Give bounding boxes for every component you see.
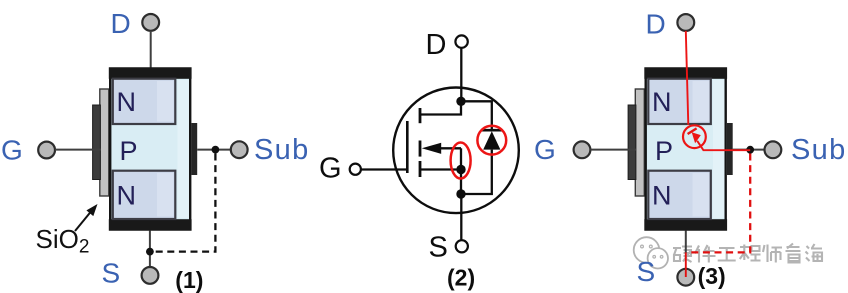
char 海 bbox=[806, 244, 824, 261]
svg-text:(3): (3) bbox=[698, 263, 726, 289]
wire G (part1) bbox=[55, 149, 101, 151]
wire S (part2) bbox=[460, 194, 462, 240]
wire D (part2) bbox=[460, 48, 462, 102]
red highlight ellipse around body-source short (part2) bbox=[451, 143, 471, 179]
gate bar (part2) bbox=[406, 121, 409, 173]
node Sub junction (part3) bbox=[746, 146, 754, 154]
red dashed wire Sub to S (part3) bbox=[687, 154, 750, 253]
svg-text:N: N bbox=[652, 180, 672, 210]
gate electrode bar (part3) bbox=[628, 105, 636, 180]
N+ drain box light strip (part1) bbox=[157, 81, 174, 122]
terminal S (part2) bbox=[456, 240, 468, 252]
char 件 bbox=[695, 245, 716, 263]
arrow SiO2 pointer (part1) bbox=[75, 212, 91, 232]
channel segment drain (part2) bbox=[419, 108, 422, 123]
gate electrode bar (part1) bbox=[93, 105, 101, 180]
terminal D (part2) bbox=[455, 35, 467, 47]
svg-text:G: G bbox=[1, 135, 23, 166]
body right light strip (part1) bbox=[178, 80, 190, 218]
svg-text:Sub: Sub bbox=[254, 134, 310, 166]
svg-text:N: N bbox=[117, 180, 137, 210]
source metal bar bottom (part1) bbox=[109, 219, 192, 231]
red body diode arrow (part3) bbox=[692, 132, 701, 143]
drain metal bar top (part3) bbox=[644, 67, 727, 79]
char 硬 bbox=[673, 247, 692, 263]
svg-text:D: D bbox=[111, 8, 131, 39]
channel segment source (part2) bbox=[419, 161, 422, 177]
terminal Sub (part1) bbox=[231, 141, 248, 158]
svg-text:S: S bbox=[637, 256, 656, 287]
dashed wire Sub to S (part1) bbox=[154, 154, 216, 252]
watermark logo bubble big bbox=[634, 237, 660, 263]
wire Sub (part1) bbox=[197, 149, 231, 151]
red wire S lower (part3) bbox=[685, 252, 687, 277]
wire D (part1) bbox=[150, 31, 152, 68]
N+ source box light strip (part1) bbox=[157, 173, 174, 217]
char 工 bbox=[718, 248, 736, 261]
svg-text:D: D bbox=[646, 9, 666, 40]
red body diode circle (part3) bbox=[683, 125, 706, 148]
svg-text:S: S bbox=[429, 232, 448, 264]
svg-text:(2): (2) bbox=[447, 265, 475, 291]
substrate contact tab (part3) bbox=[727, 123, 733, 175]
wire source to channel (part2) bbox=[419, 168, 461, 170]
N+ source box (part3) bbox=[648, 171, 711, 219]
N+ source box light strip (part3) bbox=[693, 173, 710, 217]
terminal Sub (part3) bbox=[765, 141, 782, 158]
svg-text:Sub: Sub bbox=[791, 134, 847, 166]
node Sub junction (part1) bbox=[212, 146, 220, 154]
node body-source junction dot (part2) bbox=[456, 165, 465, 174]
wire S (part1) bbox=[149, 231, 151, 268]
svg-text:N: N bbox=[117, 87, 137, 117]
wire diode branch (part2) bbox=[461, 101, 492, 130]
body diode D1 triangle (part2) bbox=[483, 131, 500, 149]
terminal G (part2) bbox=[350, 164, 361, 175]
red wire D to body diode (part3) bbox=[686, 31, 689, 125]
svg-text:N: N bbox=[652, 87, 672, 117]
channel segment body (part2) bbox=[419, 141, 422, 157]
svg-text:G: G bbox=[319, 153, 342, 185]
svg-text:P: P bbox=[655, 136, 673, 166]
N+ drain box (part1) bbox=[113, 79, 176, 124]
body arrow (part2) bbox=[422, 143, 441, 154]
terminal S (part1) bbox=[142, 267, 159, 284]
char 师 bbox=[763, 245, 782, 263]
body region P (part1) bbox=[110, 69, 190, 230]
char 看 bbox=[786, 244, 801, 263]
MOSFET body circle U1 (part2) bbox=[393, 88, 519, 214]
svg-text:P: P bbox=[120, 136, 138, 166]
node S junction (part1) bbox=[146, 248, 154, 256]
terminal D (part3) bbox=[677, 14, 694, 31]
watermark logo eyes bbox=[641, 245, 644, 248]
watermark logo bubble small bbox=[648, 248, 668, 268]
oxide SiO2 bar (part3) bbox=[635, 89, 644, 196]
red highlight circle around diode (part2) bbox=[477, 126, 506, 155]
terminal G (part3) bbox=[574, 141, 591, 158]
red body diode cathode bar (part3) bbox=[688, 128, 697, 134]
oxide SiO2 bar (part1) bbox=[100, 89, 109, 196]
substrate contact tab (part1) bbox=[192, 123, 198, 175]
red wire diode to Sub junction (part3) bbox=[697, 141, 750, 150]
wire S upper black (part3) bbox=[685, 231, 687, 253]
char 程 bbox=[740, 245, 761, 261]
N+ source box (part1) bbox=[113, 171, 176, 219]
wire Sub (part3) bbox=[733, 149, 767, 151]
node source junction dot (part2) bbox=[456, 189, 465, 198]
watermark text 硬件工程师看海 (drawn strokes) bbox=[673, 244, 823, 263]
body right light strip (part3) bbox=[713, 80, 725, 218]
svg-text:D: D bbox=[426, 29, 447, 61]
N+ drain box light strip (part3) bbox=[693, 81, 710, 122]
terminal G (part1) bbox=[38, 142, 55, 159]
wire G (part2) bbox=[361, 168, 409, 170]
svg-text:G: G bbox=[534, 134, 556, 165]
body diode D1 cathode bar (part2) bbox=[482, 129, 502, 132]
drain metal bar top (part1) bbox=[109, 67, 192, 79]
svg-text:(1): (1) bbox=[175, 267, 203, 293]
wire body to source junction (part2) bbox=[460, 148, 462, 169]
wire source junction down (part2) bbox=[460, 170, 462, 195]
N+ drain box (part3) bbox=[648, 79, 711, 124]
svg-text:S: S bbox=[102, 258, 121, 289]
node drain junction dot (part2) bbox=[456, 97, 465, 106]
terminal D (part1) bbox=[142, 14, 159, 31]
wire G (part3) bbox=[590, 149, 636, 151]
body region P (part3) bbox=[646, 69, 726, 230]
source metal bar bottom (part3) bbox=[644, 219, 727, 231]
wire drain to channel (part2) bbox=[419, 101, 461, 114]
terminal S (part3) bbox=[677, 269, 694, 286]
